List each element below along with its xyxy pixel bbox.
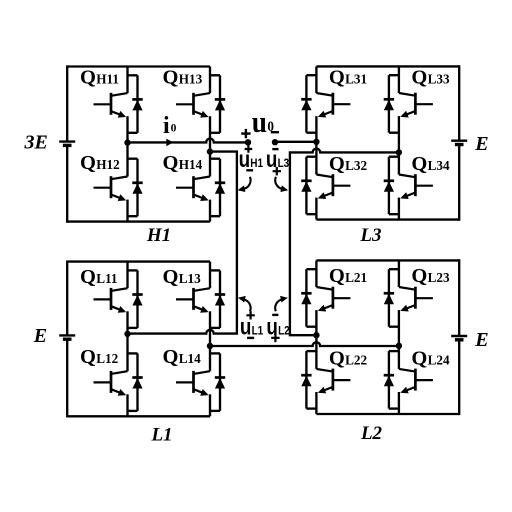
svg-text:L2: L2 (360, 423, 383, 444)
node u0- terminal (272, 139, 278, 145)
plus sign below u_L3 (273, 167, 281, 175)
L1 bridge top rail (wire) (67, 260, 210, 262)
wire H1 right-leg tap down to L1 (series link), joins L1 output wire with hop over L1 right leg (128, 152, 237, 334)
transistor Q_L22 (IGBT with antiparallel diode) (301, 335, 350, 414)
L3 bridge bottom rail (wire) (316, 218, 459, 220)
svg-text:E: E (474, 133, 488, 155)
node L1 leg1 midpoint (124, 331, 130, 337)
node L2 inner-leg tap (396, 343, 402, 349)
svg-text:3E: 3E (24, 131, 48, 153)
node L3 left-leg junction (313, 139, 319, 145)
svg-text:E: E (474, 329, 488, 351)
node L2 left-leg junction (313, 332, 319, 338)
minus sign below u_H1 (246, 169, 253, 171)
transistor Q_L23 (IGBT with antiparallel diode) (384, 260, 433, 345)
node u0+ terminal (245, 139, 251, 145)
curved arrow of u_H1 (243, 177, 250, 189)
L2 bridge top rail (wire) (316, 259, 459, 261)
L3 right edge lower wire from battery (458, 145, 460, 221)
svg-text:E: E (33, 325, 47, 347)
wire H1 output: leg1 midpoint to u0+ terminal, hops over right leg (128, 139, 249, 143)
svg-text:L3: L3 (359, 225, 381, 246)
L3 bridge top rail (wire) (316, 65, 459, 67)
node H1 right-leg tap (207, 148, 213, 154)
transistor Q_L33 (IGBT with antiparallel diode) (384, 66, 433, 152)
L1 left edge lower wire from battery (66, 339, 68, 417)
battery source E of bridge L2 (451, 336, 467, 340)
transistor Q_L31 (IGBT with antiparallel diode) (301, 66, 350, 141)
plus sign at u0+ node (uH1 +) (245, 145, 253, 153)
battery source 3E of bridge H1 (59, 142, 75, 146)
minus sign above u_L2 (272, 314, 278, 316)
plus sign below u_L2 (271, 334, 279, 342)
L2 right edge upper wire to battery (458, 259, 460, 336)
transistor Q_L14 (IGBT with antiparallel diode) (176, 346, 225, 416)
transistor Q_H11 (IGBT with antiparallel diode) (94, 67, 143, 143)
curved arrow of u_L2 (275, 299, 282, 311)
curved arrow of u_L3 (275, 177, 282, 189)
wire L1 right-leg tap to L2 inner leg, hops over L2 left leg (210, 342, 399, 346)
L3 right edge upper wire to battery (458, 65, 460, 140)
transistor Q_L24 (IGBT with antiparallel diode) (384, 346, 433, 414)
L2 right edge lower wire from battery (458, 340, 460, 415)
svg-text:H1: H1 (146, 225, 171, 246)
transistor Q_L12 (IGBT with antiparallel diode) (94, 334, 143, 417)
H1 left edge upper wire to battery (66, 65, 68, 141)
transistor Q_L13 (IGBT with antiparallel diode) (176, 262, 225, 346)
H1 left edge lower wire from battery (66, 145, 68, 222)
current i0 arrowhead on wire (166, 139, 173, 147)
minus sign of u0 (right) (271, 131, 279, 133)
curved arrow of u_L1 (243, 299, 250, 311)
node H1 leg1 midpoint (124, 139, 130, 145)
transistor Q_L21 (IGBT with antiparallel diode) (301, 260, 350, 335)
L1 left edge upper wire to battery (66, 261, 68, 336)
node L1 right-leg tap (207, 343, 213, 349)
plus sign above u_L1 (246, 311, 254, 319)
transistor Q_L32 (IGBT with antiparallel diode) (301, 142, 350, 220)
transistor Q_H12 (IGBT with antiparallel diode) (94, 142, 143, 221)
L1 bridge bottom rail (wire) (67, 415, 210, 417)
battery source E of bridge L3 (451, 141, 467, 145)
node L3 inner-leg tap (396, 149, 402, 155)
plus sign of u0 (left) (241, 129, 250, 138)
minus sign at u0- node (uL3 -) (272, 148, 278, 150)
H1 bridge top rail (wire) (67, 65, 210, 67)
minus sign below u_L1 (247, 337, 254, 339)
transistor Q_L34 (IGBT with antiparallel diode) (384, 152, 433, 219)
H1 bridge bottom rail (wire) (67, 220, 210, 222)
L2 bridge bottom rail (wire) (316, 413, 459, 415)
wire L3 inner-leg tap to L2 (series link), hops over L3 left leg (290, 149, 399, 336)
wire u0- terminal to L3 left leg (275, 141, 316, 143)
transistor Q_H14 (IGBT with antiparallel diode) (176, 152, 225, 222)
svg-text:L1: L1 (150, 425, 172, 446)
transistor Q_L11 (IGBT with antiparallel diode) (94, 262, 143, 334)
battery source E of bridge L1 (59, 335, 75, 339)
transistor Q_H13 (IGBT with antiparallel diode) (176, 67, 225, 152)
